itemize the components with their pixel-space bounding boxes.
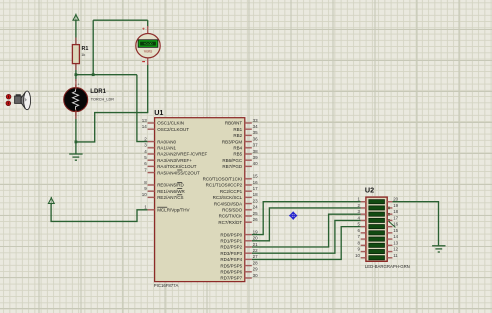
svg-text:RD4/PSP4: RD4/PSP4	[220, 257, 242, 262]
svg-text:RB0/INT: RB0/INT	[225, 121, 243, 126]
svg-text:U2: U2	[365, 186, 374, 195]
svg-text:Volts: Volts	[144, 49, 152, 54]
svg-text:20: 20	[253, 236, 259, 241]
svg-text:U1: U1	[154, 108, 163, 117]
svg-text:16: 16	[393, 222, 398, 227]
svg-text:27: 27	[253, 254, 259, 259]
svg-text:1k: 1k	[81, 53, 85, 57]
svg-text:RC6/TX/CK: RC6/TX/CK	[219, 214, 243, 219]
svg-text:RD0/PSP0: RD0/PSP0	[220, 232, 242, 237]
svg-text:RB6/PGC: RB6/PGC	[222, 158, 243, 163]
svg-text:RE0/AN5/RD: RE0/AN5/RD	[157, 183, 184, 188]
svg-text:37: 37	[253, 143, 259, 148]
svg-text:19: 19	[393, 203, 398, 208]
svg-text:RC1/T1OSI/CCP2: RC1/T1OSI/CCP2	[206, 183, 243, 188]
svg-text:15: 15	[393, 228, 398, 233]
svg-text:17: 17	[393, 215, 398, 220]
svg-text:RD7/PSP7: RD7/PSP7	[220, 276, 242, 281]
svg-text:21: 21	[253, 242, 259, 247]
svg-text:RC2/CCP1: RC2/CCP1	[220, 189, 243, 194]
svg-text:RA5/AN4/SS/C2OUT: RA5/AN4/SS/C2OUT	[157, 170, 200, 175]
svg-text:34: 34	[253, 124, 259, 129]
svg-text:25: 25	[253, 211, 259, 216]
svg-text:10: 10	[142, 192, 148, 197]
svg-text:RD2/PSP2: RD2/PSP2	[220, 245, 242, 250]
svg-text:RB3/PGM: RB3/PGM	[222, 139, 243, 144]
svg-text:LDR1: LDR1	[90, 89, 106, 95]
svg-text:23: 23	[253, 198, 259, 203]
svg-text:26: 26	[253, 217, 259, 222]
svg-text:MCLR/Vpp/THV: MCLR/Vpp/THV	[157, 208, 189, 213]
svg-text:RD1/PSP1: RD1/PSP1	[220, 239, 242, 244]
svg-text:17: 17	[253, 186, 259, 191]
svg-text:RB4: RB4	[233, 146, 242, 151]
svg-text:+: +	[142, 28, 145, 33]
svg-text:RD3/PSP3: RD3/PSP3	[220, 251, 242, 256]
svg-text:RB7/PGD: RB7/PGD	[222, 164, 243, 169]
svg-text:OSC2/CLKOUT: OSC2/CLKOUT	[157, 127, 189, 132]
svg-text:PIC16F877A: PIC16F877A	[154, 283, 179, 288]
svg-text:RB2: RB2	[233, 133, 242, 138]
svg-text:18: 18	[253, 192, 259, 197]
svg-text:R1: R1	[82, 46, 89, 52]
svg-text:10: 10	[355, 253, 360, 258]
svg-text:RA2/AN2/VREF-/CVREF: RA2/AN2/VREF-/CVREF	[157, 152, 207, 157]
svg-text:RC4/SDI/SDA: RC4/SDI/SDA	[214, 201, 242, 206]
svg-text:RE1/AN6/WR: RE1/AN6/WR	[157, 189, 185, 194]
svg-text:30: 30	[253, 273, 259, 278]
svg-text:RA0/AN0: RA0/AN0	[157, 139, 176, 144]
svg-text:+: +	[78, 83, 80, 87]
svg-text:11: 11	[393, 253, 398, 258]
svg-text:RA4/T0CKI/C1OUT: RA4/T0CKI/C1OUT	[157, 164, 197, 169]
svg-text:15: 15	[253, 174, 259, 179]
svg-text:OSC1/CLKIN: OSC1/CLKIN	[157, 121, 184, 126]
svg-text:RB5: RB5	[233, 152, 242, 157]
svg-text:RD6/PSP6: RD6/PSP6	[220, 270, 242, 275]
svg-text:28: 28	[253, 260, 259, 265]
svg-text:RA1/AN1: RA1/AN1	[157, 146, 176, 151]
svg-text:19: 19	[253, 229, 259, 234]
svg-text:12: 12	[393, 247, 398, 252]
svg-text:22: 22	[253, 248, 259, 253]
svg-text:RD5/PSP5: RD5/PSP5	[220, 263, 242, 268]
svg-text:39: 39	[253, 155, 259, 160]
svg-text:RA3/AN3/VREF+: RA3/AN3/VREF+	[157, 158, 192, 163]
svg-text:RC0/T1OSO/T1CKI: RC0/T1OSO/T1CKI	[203, 177, 243, 182]
svg-text:35: 35	[253, 130, 259, 135]
svg-text:29: 29	[253, 267, 259, 272]
svg-text:14: 14	[142, 124, 148, 129]
svg-text:13: 13	[142, 118, 148, 123]
svg-text:RC3/SCK/SCL: RC3/SCK/SCL	[213, 195, 243, 200]
svg-text:LED-BARGRAPH-GRN: LED-BARGRAPH-GRN	[365, 264, 410, 269]
svg-text:36: 36	[253, 136, 259, 141]
svg-text:24: 24	[253, 205, 259, 210]
svg-text:20: 20	[393, 197, 398, 202]
svg-text:RB1: RB1	[233, 127, 242, 132]
svg-text:RC7/RX/DT: RC7/RX/DT	[218, 220, 242, 225]
svg-text:13: 13	[393, 240, 398, 245]
svg-text:40: 40	[253, 161, 259, 166]
svg-text:16: 16	[253, 180, 259, 185]
svg-text:33: 33	[253, 118, 259, 123]
svg-text:14: 14	[393, 234, 398, 239]
svg-text:+0.00: +0.00	[143, 42, 152, 46]
svg-text:18: 18	[393, 209, 398, 214]
svg-text:TORCH_LDR: TORCH_LDR	[91, 97, 114, 101]
svg-text:RC5/SDO: RC5/SDO	[222, 208, 243, 213]
svg-text:38: 38	[253, 149, 259, 154]
svg-text:RE2/AN7/CS: RE2/AN7/CS	[157, 195, 183, 200]
